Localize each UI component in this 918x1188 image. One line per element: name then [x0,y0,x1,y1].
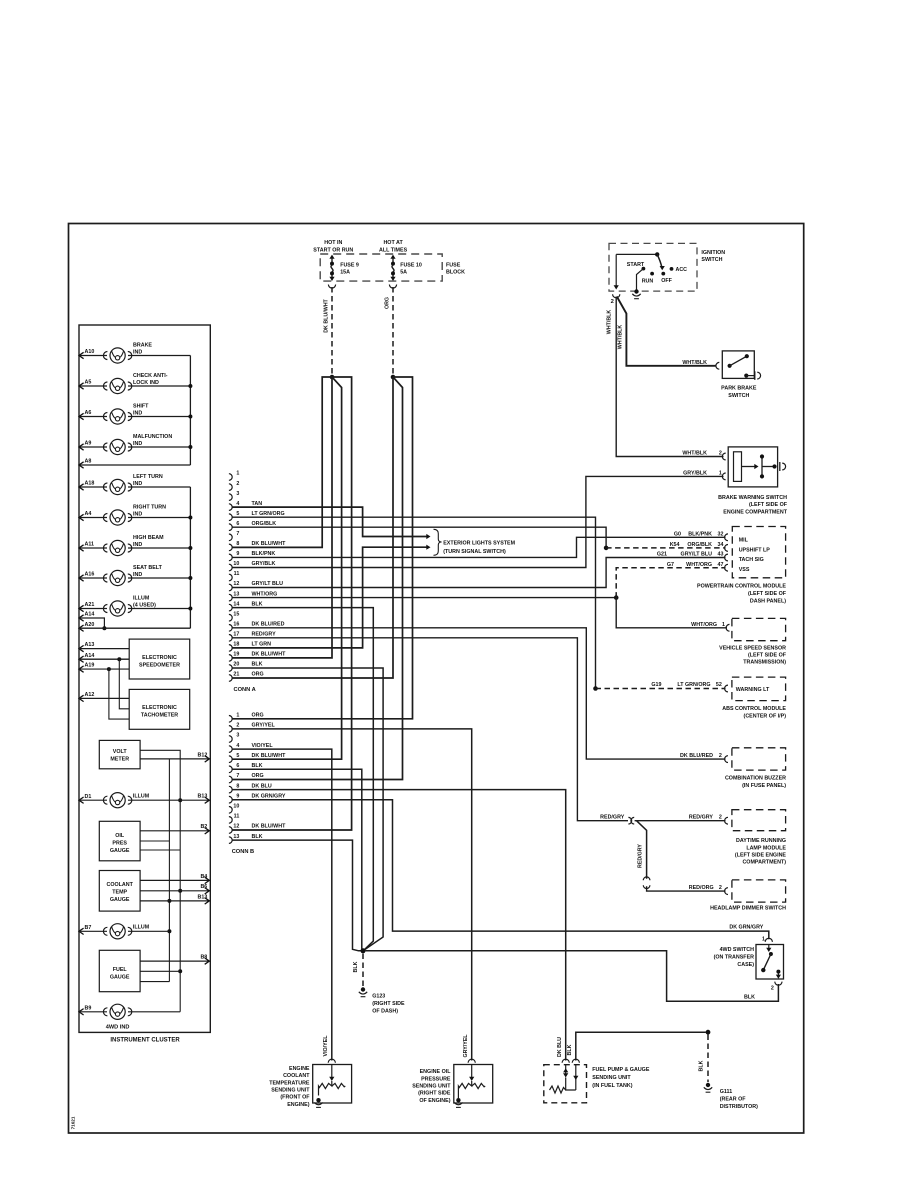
svg-text:4: 4 [236,743,239,749]
node A14/A20 junction [102,626,106,630]
connector below fuse 9 [328,285,335,289]
svg-text:OFF: OFF [661,278,672,284]
ground coolant sender [316,1098,320,1102]
ABS warning lt dashed box [732,677,786,701]
wire ORG branch to CONN B pin 1 [232,377,413,719]
svg-text:COMPARTMENT): COMPARTMENT) [742,860,786,866]
svg-text:A12: A12 [85,692,95,698]
svg-text:(IN FUSE PANEL): (IN FUSE PANEL) [742,783,786,789]
svg-text:A9: A9 [85,441,92,447]
wire GRY/YEL CONN B pin 2 to oil sender [232,729,472,1061]
svg-text:13: 13 [233,834,239,840]
svg-text:G111: G111 [720,1089,733,1095]
svg-text:ELECTRONIC: ELECTRONIC [142,705,177,711]
park brake switch contacts [728,364,732,368]
svg-text:6: 6 [236,763,239,769]
connector PCM 32 [725,534,728,541]
svg-text:19: 19 [233,652,239,658]
wire oil gauge tap 1 [140,840,169,842]
wire BLK 4WD switch to junction [366,951,779,1002]
svg-text:5A: 5A [400,270,407,276]
svg-text:A11: A11 [85,542,95,548]
svg-text:(4 USED): (4 USED) [133,603,156,609]
svg-text:A19: A19 [85,663,95,669]
indicator bulb 4WD IND (B9) [79,1009,84,1015]
connector ABS 52 [725,685,728,692]
ignition START contact [642,267,646,271]
svg-text:TEMP: TEMP [112,890,127,896]
connector CONN B pin 1 [229,716,232,723]
ignition switch dashed box [609,243,697,291]
svg-text:47: 47 [718,562,724,568]
connector 4WD pin 2 [775,982,782,986]
connector CONN A pin 21 [229,675,232,682]
svg-text:WHT/ORG: WHT/ORG [252,591,278,597]
wire BLK CONN B pin 13 to junction [232,840,363,951]
brake warning contact bar [761,457,763,477]
node WHT/ORG splice [614,595,619,600]
ground G123 [361,987,365,991]
page border frame [69,224,804,1134]
wire pin A12 [79,695,84,701]
svg-text:ILLUM: ILLUM [133,794,150,800]
electronic tachometer box [129,689,190,729]
svg-text:SEAT BELT: SEAT BELT [133,565,163,571]
brake warning actuator arrow [742,466,756,468]
svg-text:RUN: RUN [642,279,654,285]
connector CONN A pin 8 [229,544,232,551]
svg-text:(REAR OF: (REAR OF [720,1096,747,1102]
wire DK BLU/WHT branch to CONN B pin 12 [232,377,352,830]
svg-text:GRY/BLK: GRY/BLK [252,561,276,567]
svg-text:A14: A14 [85,653,95,659]
indicator bulb LEFT TURN IND (A18) [79,486,107,488]
svg-text:SENDING UNIT: SENDING UNIT [412,1084,451,1090]
connector coolant sender [328,1059,335,1063]
wire gauge bus 2 [168,759,170,982]
svg-text:ORG: ORG [385,297,391,309]
svg-text:14: 14 [233,601,239,607]
ground oil sender [456,1098,460,1102]
svg-text:52: 52 [716,682,722,688]
svg-text:IND: IND [133,411,142,417]
svg-text:BLOCK: BLOCK [446,270,465,276]
svg-text:B7: B7 [85,925,92,931]
connector 4WD pin 1 [765,938,772,942]
svg-text:2: 2 [719,815,722,821]
svg-text:TACHOMETER: TACHOMETER [141,713,178,719]
svg-text:B4: B4 [200,874,207,880]
bus wire indicator group 2 [189,487,191,628]
svg-text:DK BLU: DK BLU [252,783,272,789]
connector CONN B pin 9 [229,796,232,803]
wire WHT/ORG to vehicle speed sensor [616,598,727,628]
svg-text:4: 4 [236,501,239,507]
connector VSS pin 1 [726,624,729,631]
node LT GRN/ORG splice [593,686,598,691]
brake warning switch box [728,447,777,487]
svg-text:8: 8 [236,783,239,789]
wire oil gauge tap 2 [140,849,180,851]
svg-text:DK BLU/WHT: DK BLU/WHT [252,753,287,759]
fuel gauge box [99,950,140,991]
svg-text:11: 11 [234,814,240,820]
svg-text:(RIGHT SIDE: (RIGHT SIDE [372,1001,405,1007]
connector CONN A pin 9 [229,554,232,561]
svg-text:A5: A5 [85,380,92,386]
svg-text:A6: A6 [85,410,92,416]
svg-text:8: 8 [236,541,239,547]
svg-text:LEFT TURN: LEFT TURN [133,474,163,480]
svg-text:ILLUM: ILLUM [133,925,150,931]
svg-text:A20: A20 [85,622,95,628]
daytime running lamp dashed box [732,810,786,831]
connector CONN A pin 14 [229,604,232,611]
svg-text:(CENTER OF I/P): (CENTER OF I/P) [744,713,787,719]
svg-text:DK BLU: DK BLU [557,1037,563,1057]
svg-text:DK BLU/WHT: DK BLU/WHT [252,541,287,547]
ignition OFF contact [661,272,665,276]
wire RED/GRY CONN A pin 17 to daytime module [232,638,628,821]
svg-text:ORG/BLK: ORG/BLK [252,521,277,527]
wire ORG fuse 10 dashed lead [392,287,394,375]
svg-text:ORG: ORG [252,713,264,719]
node ORG/BLK splice [604,546,609,551]
brace exterior lights [434,529,442,555]
wire pin A20 [79,625,84,631]
svg-text:RIGHT TURN: RIGHT TURN [133,505,166,511]
wire fuel gauge tap 2 [140,981,169,983]
svg-text:OF ENGINE): OF ENGINE) [419,1098,450,1104]
4WD switch contact arm [768,945,770,949]
svg-text:HIGH BEAM: HIGH BEAM [133,535,164,541]
wire DK BLU CONN B pin 8 to fuel sender [232,790,566,1061]
svg-text:B12: B12 [197,752,207,758]
powertrain control module dashed box [732,527,785,578]
svg-text:IND: IND [133,481,142,487]
ignition ground [634,289,638,293]
svg-text:GRY/YEL: GRY/YEL [252,723,276,729]
svg-text:G0: G0 [674,531,681,537]
svg-text:ORG/BLK: ORG/BLK [687,542,712,548]
svg-text:MALFUNCTION: MALFUNCTION [133,434,172,440]
svg-text:WHT/BLK: WHT/BLK [618,325,624,350]
svg-text:BLK: BLK [567,1044,573,1055]
svg-text:2: 2 [719,885,722,891]
oil pressure gauge box [99,821,140,861]
wire volt meter to illum bus [140,750,180,1012]
wire LT GRN/ORG CONN A pin 5 to ABS [232,517,596,688]
svg-text:VIO/YEL: VIO/YEL [323,1035,329,1057]
svg-text:IND: IND [133,512,142,518]
svg-text:FUSE 9: FUSE 9 [340,262,359,268]
bus wire indicator group 1 [189,356,191,466]
svg-text:16: 16 [233,622,239,628]
svg-text:BLK: BLK [252,834,263,840]
connector CONN B pin 13 [229,837,232,844]
headlamp dimmer dashed box [732,880,786,902]
connector CONN A pin 2 [229,484,232,491]
svg-text:10: 10 [233,804,239,810]
svg-text:START OR RUN: START OR RUN [313,248,353,254]
svg-text:DASH PANEL): DASH PANEL) [750,599,786,605]
svg-text:BLK: BLK [744,994,755,1000]
connector CONN A pin 5 [229,514,232,521]
svg-text:TAN: TAN [252,501,263,507]
illum bulb B7 [79,928,84,934]
svg-text:11: 11 [234,571,240,577]
indicator bulb BRAKE IND (A10) [79,355,107,357]
svg-text:EXTERIOR LIGHTS SYSTEM: EXTERIOR LIGHTS SYSTEM [443,540,515,546]
wire DK BLU/RED CONN A pin 16 to buzzer [232,628,726,759]
connector ignition pin 2 [613,294,620,298]
connector CONN A pin 11 [229,574,232,581]
connector CONN A pin 15 [229,614,232,621]
svg-text:(LEFT SIDE OF: (LEFT SIDE OF [748,591,787,597]
vehicle speed sensor dashed box [732,618,786,640]
connector CONN A pin 4 [229,504,232,511]
connector CONN A pin 13 [229,594,232,601]
node BLK ground junction [361,948,366,953]
svg-text:5: 5 [236,511,239,517]
svg-text:LT GRN: LT GRN [252,642,272,648]
node BLK G111 junction [706,1030,711,1035]
wire pin A13 [79,645,84,651]
instrument cluster box [79,325,210,1032]
svg-text:G123: G123 [372,994,385,1000]
svg-text:1: 1 [722,622,725,628]
svg-text:1: 1 [236,471,239,477]
brake warning ground link [762,466,775,468]
park brake ground [744,374,748,378]
svg-text:SENDING UNIT: SENDING UNIT [592,1075,631,1081]
connector daytime module [725,817,728,824]
svg-text:20: 20 [233,662,239,668]
svg-text:(LEFT SIDE ENGINE: (LEFT SIDE ENGINE [735,853,787,859]
node speedo splice 2 [107,667,111,671]
svg-text:IGNITION: IGNITION [701,250,725,256]
svg-text:DK GRN/GRY: DK GRN/GRY [729,924,763,930]
wire speedo to tach 2 [109,669,129,719]
svg-text:VOLT: VOLT [113,749,128,755]
svg-text:17: 17 [233,632,239,638]
node speedo splice 1 [117,657,121,661]
svg-text:OF DASH): OF DASH) [372,1009,398,1015]
svg-text:RED/GRY: RED/GRY [638,844,644,868]
connector CONN A pin 19 [229,655,232,662]
svg-text:COOLANT: COOLANT [106,882,133,888]
svg-text:HOT AT: HOT AT [383,240,403,246]
svg-text:ALL TIMES: ALL TIMES [379,248,408,254]
svg-text:HEADLAMP DIMMER SWITCH: HEADLAMP DIMMER SWITCH [710,905,786,911]
connector buzzer [725,756,728,763]
svg-text:B6: B6 [200,884,207,890]
oil sender internals [471,1065,473,1078]
connector oil sender [468,1059,475,1063]
svg-text:LT GRN/ORG: LT GRN/ORG [252,511,285,517]
svg-text:ELECTRONIC: ELECTRONIC [142,655,177,661]
wire pin A19 [79,666,84,672]
svg-text:3: 3 [236,733,239,739]
svg-text:(FRONT OF: (FRONT OF [280,1095,310,1101]
svg-text:21: 21 [233,672,239,678]
svg-text:(RIGHT SIDE: (RIGHT SIDE [418,1091,451,1097]
svg-text:GRY/YEL: GRY/YEL [463,1034,469,1058]
engine coolant temperature sending unit box [313,1065,352,1104]
svg-text:G19: G19 [651,682,661,688]
combination buzzer dashed box [732,748,786,770]
wire coolant gauge pin B6 [140,890,209,892]
svg-text:A8: A8 [85,459,92,465]
svg-text:SWITCH: SWITCH [701,257,722,263]
svg-text:A13: A13 [85,642,95,648]
svg-text:A21: A21 [85,602,95,608]
wire BLK dashed to G111 [707,1035,709,1083]
wire TAN CONN A pin 4 to turn signal [232,507,427,536]
svg-text:FUEL PUMP & GAUGE: FUEL PUMP & GAUGE [592,1067,650,1073]
svg-text:SPEEDOMETER: SPEEDOMETER [139,663,180,669]
svg-text:1: 1 [719,470,722,476]
svg-text:DK BLU/WHT: DK BLU/WHT [252,652,287,658]
svg-text:ORG: ORG [252,672,264,678]
svg-text:RED/GRY: RED/GRY [600,815,625,821]
svg-text:A16: A16 [85,572,95,578]
svg-text:GAUGE: GAUGE [110,975,130,981]
svg-text:7: 7 [236,773,239,779]
electronic speedometer box [129,639,190,679]
wire BLK fuel pump to G111 [576,1032,706,1060]
svg-text:TEMPERATURE: TEMPERATURE [269,1080,310,1086]
connector CONN B pin 8 [229,786,232,793]
connector PCM 47 [725,564,728,571]
svg-text:(LEFT SIDE OF: (LEFT SIDE OF [749,502,788,508]
svg-text:PARK BRAKE: PARK BRAKE [721,386,757,392]
svg-text:HOT IN: HOT IN [324,240,342,246]
svg-text:WHT/BLK: WHT/BLK [607,310,613,335]
svg-text:GAUGE: GAUGE [110,897,130,903]
svg-text:4WD SWITCH: 4WD SWITCH [720,947,755,953]
svg-text:(TURN SIGNAL SWITCH): (TURN SIGNAL SWITCH) [443,549,506,555]
svg-text:ENGINE OIL: ENGINE OIL [420,1069,452,1075]
fuel sender internals [565,1065,567,1074]
connector CONN A pin 18 [229,645,232,652]
wire DK BLU/WHT fuse 9 dashed lead [331,287,333,375]
wire BLK CONN B pin 6 to junction [232,769,363,951]
svg-text:7: 7 [236,531,239,537]
svg-text:BLK: BLK [699,1060,705,1071]
svg-text:4WD IND: 4WD IND [106,1024,130,1030]
wire coolant gauge pin B13 [140,900,209,902]
wire fuel gauge pin B8 [140,960,209,962]
ignition feed wire [616,253,657,255]
svg-text:BLK/PNK: BLK/PNK [688,531,712,537]
svg-text:WHT/BLK: WHT/BLK [682,451,707,457]
svg-text:34: 34 [718,542,724,548]
svg-text:DK BLU/WHT: DK BLU/WHT [323,298,329,332]
svg-text:D1: D1 [85,794,92,800]
splice node S1 DK BLU/WHT [330,375,335,380]
svg-text:6: 6 [236,521,239,527]
svg-text:A10: A10 [85,349,95,355]
connector headlamp dimmer [725,888,728,895]
wire VIO/YEL CONN B pin 4 to coolant sender [232,749,332,1060]
indicator bulb MALFUNCTION IND (A9) [79,446,107,448]
svg-text:2: 2 [236,481,239,487]
connector CONN A pin 20 [229,665,232,672]
connector CONN B pin 5 [229,756,232,763]
svg-text:A14: A14 [85,612,95,618]
wire pin A14 speedometer [79,656,84,662]
ground G111 [706,1083,710,1087]
wire ORG branch to CONN B pin 7 [232,377,403,780]
wire fuel gauge tap 1 [140,970,180,972]
connector splice RED/GRY [628,817,631,824]
svg-text:INSTRUMENT CLUSTER: INSTRUMENT CLUSTER [110,1038,180,1044]
svg-text:15A: 15A [340,270,350,276]
svg-text:2: 2 [719,451,722,457]
wire speedo to tach 1 [119,659,129,709]
svg-text:RED/ORG: RED/ORG [689,885,714,891]
svg-text:FUSE: FUSE [446,262,461,268]
svg-text:B13: B13 [197,894,207,900]
svg-text:18: 18 [233,642,239,648]
svg-text:LOCK IND: LOCK IND [133,380,159,386]
svg-text:A18: A18 [85,481,95,487]
svg-text:BRAKE: BRAKE [133,343,152,349]
svg-text:15: 15 [233,611,239,617]
wire GRY/BLK brake warning to CONN A pin 10 [232,476,724,567]
ignition ACC contact [670,267,674,271]
svg-text:RED/GRY: RED/GRY [252,632,277,638]
connector CONN B pin 3 [229,736,232,743]
splice node S2 ORG [391,375,396,380]
svg-text:MIL: MIL [739,538,749,544]
svg-text:CONN A: CONN A [234,687,256,693]
connector brake warning pin 1 [722,473,725,480]
svg-text:CONN B: CONN B [232,849,254,855]
connector CONN B pin 10 [229,807,232,814]
wire RED/ORG to headlamp dimmer switch [647,886,726,891]
coolant temp gauge box [99,871,140,912]
svg-text:2: 2 [771,986,774,992]
svg-text:B9: B9 [85,1005,92,1011]
connector CONN B pin 7 [229,776,232,783]
connector splice RED/GRY 2 [643,877,650,880]
svg-text:COOLANT: COOLANT [283,1073,310,1079]
svg-text:CASE): CASE) [737,962,754,968]
wire DK BLU/WHT branch to CONN A pin 19 [232,377,332,658]
svg-text:VIO/YEL: VIO/YEL [252,743,274,749]
park brake switch box [722,351,754,379]
svg-text:GRY/LT BLU: GRY/LT BLU [252,581,284,587]
svg-text:BLK: BLK [252,662,263,668]
svg-text:WHT/BLK: WHT/BLK [682,360,707,366]
svg-text:GRY/LT BLU: GRY/LT BLU [681,552,713,558]
svg-text:SWITCH: SWITCH [728,393,749,399]
connector CONN A pin 3 [229,494,232,501]
wire BLK dashed to G123 [362,954,364,987]
wire GRY/LT BLU CONN A pin 12 to PCM 43 [232,558,726,588]
wire BLK/PNK CONN A pin 9 to PCM 32 [232,537,726,557]
svg-text:B2: B2 [200,824,207,830]
connector CONN B pin 2 [229,726,232,733]
wire RED/GRY to daytime module [635,820,726,822]
connector CONN B pin 4 [229,746,232,753]
svg-text:WHT/ORG: WHT/ORG [686,562,712,568]
svg-text:FUSE 10: FUSE 10 [400,262,422,268]
svg-text:K54: K54 [670,542,680,548]
svg-text:DK BLU/RED: DK BLU/RED [252,622,285,628]
